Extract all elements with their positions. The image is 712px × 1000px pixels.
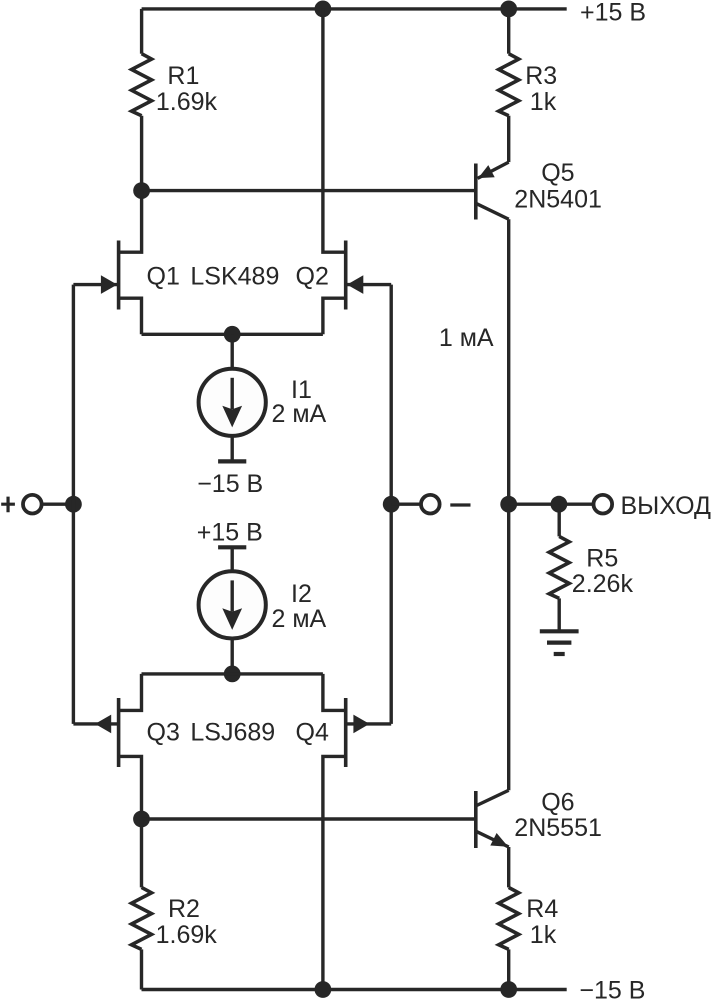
wire top +15V rail [142,7,567,10]
junction R1 / Q5 base [133,182,150,199]
wire R2 top lead [140,819,143,887]
power +15V stub (I2) [218,545,246,549]
svg-text:−15 В: −15 В [579,977,645,1000]
junction bottom rail / R4 [500,981,517,998]
wire R1 bottom lead [140,116,143,191]
wire R5 bottom lead [558,598,561,631]
svg-text:Q1: Q1 [147,263,180,291]
wire R2 bottom lead [140,949,143,989]
svg-text:Q2: Q2 [296,263,329,291]
svg-text:+15 В: +15 В [197,518,263,546]
svg-text:Q4: Q4 [296,719,329,747]
svg-text:Q5: Q5 [541,159,574,187]
wire Q3 gate lead [73,722,118,725]
current source I1 circle [199,369,266,436]
svg-text:2N5551: 2N5551 [514,814,602,842]
wire left gate (Q1/Q3) [72,285,75,724]
resistor R3 [499,54,519,116]
transistor Q3 gate arrow [95,715,111,734]
input + terminal circle [23,495,42,514]
svg-text:R1: R1 [167,62,199,90]
transistor Q5 emitter arrow [478,165,495,178]
transistor Q6 collector [476,790,509,806]
wire bottom sources bus [142,672,323,675]
current source I2 circle [199,571,266,638]
wire Q1 source lead [119,298,142,334]
resistor R2 [132,887,152,949]
svg-text:LSJ689: LSJ689 [190,719,275,747]
svg-text:ВЫХОД: ВЫХОД [621,492,712,520]
junction top rail / Q2 drain [315,1,332,18]
wire - input stub [391,503,421,506]
wire I1 bottom lead [230,436,233,461]
resistor R5 [549,536,569,598]
power -15V stub (I1) [218,459,246,463]
wire Q1 drain lead [119,191,142,253]
svg-text:+15 В: +15 В [580,0,646,27]
wire R4 bottom lead [507,949,510,989]
wire R3 top lead [507,9,510,54]
svg-text:1k: 1k [530,88,557,116]
junction tail / I1 [224,326,241,343]
wire I1 top lead [230,334,233,368]
input + plus sign [1,497,15,513]
current source I1 arrow [230,378,233,409]
junction bottom rail / Q4 drain [315,981,332,998]
ground symbol [540,629,579,633]
transistor Q2 gate arrow [347,275,363,294]
svg-text:Q6: Q6 [541,788,574,816]
resistor R1 [132,54,152,116]
wire Q4 gate lead [346,722,392,725]
svg-text:R4: R4 [526,895,558,923]
transistor Q5 collector [476,203,509,219]
svg-text:2.26k: 2.26k [572,570,634,598]
transistor Q6 emitter [476,831,509,847]
transistor Q6 base bar [474,791,478,848]
svg-text:−15 В: −15 В [197,470,263,498]
svg-text:R2: R2 [168,895,200,923]
svg-text:R5: R5 [586,544,618,572]
transistor Q4 channel bar [344,698,348,767]
junction output / R5 [551,496,568,513]
current source I2 arrow [230,580,233,611]
svg-text:2N5401: 2N5401 [514,185,602,213]
transistor Q4 gate arrow [353,715,369,734]
transistor Q1 gate arrow [101,275,117,294]
wire sources tail bus [142,333,323,336]
svg-text:R3: R3 [525,62,557,90]
wire Q6 emitter to R4 [507,847,510,887]
wire Q5-Q6 collector column [507,219,510,790]
transistor Q3 channel bar [117,698,121,767]
wire R3 to Q5 emitter [507,116,510,162]
output terminal circle [594,495,613,514]
junction I2 / sources bus [224,666,241,683]
svg-text:1 мА: 1 мА [439,324,494,352]
wire Q2 drain lead [323,9,346,252]
wire Q5 base line [142,189,476,192]
wire R5 top lead [558,504,561,536]
input - terminal circle [421,495,440,514]
junction R2 / Q6 base [133,811,150,828]
transistor Q6 emitter arrow [490,833,508,847]
svg-text:1.69k: 1.69k [156,88,218,116]
wire Q3 drain lead [119,756,142,819]
svg-text:2 мА: 2 мА [272,605,327,633]
transistor Q5 base bar [474,164,478,220]
input - minus sign [450,503,470,506]
wire right gate (Q2/Q4) [390,285,393,724]
wire Q6 base line [142,817,476,820]
wire I2 top lead [230,547,233,571]
junction collector column / output [500,496,517,513]
transistor Q1 channel bar [117,241,121,310]
transistor Q5 emitter [478,162,509,178]
wire Q2 source lead [323,298,346,334]
wire + input to gate wire [42,503,74,506]
wire output [509,503,594,506]
svg-text:LSK489: LSK489 [190,263,279,291]
transistor Q2 channel bar [344,241,348,310]
wire Q1 gate lead [73,283,118,286]
svg-text:Q3: Q3 [147,719,180,747]
resistor R4 [499,887,519,949]
wire bottom -15V rail [142,988,567,991]
wire Q4 drain lead [323,756,346,989]
wire Q4 source lead [323,674,346,711]
junction + input / left gate wire [65,496,82,513]
wire Q3 source lead [119,674,142,711]
wire I2 bottom lead [230,639,233,674]
junction top rail / R3 [500,1,517,18]
junction - input / right gate wire [383,496,400,513]
svg-text:2 мА: 2 мА [272,400,327,428]
wire R1 top lead [140,9,143,54]
svg-text:1.69k: 1.69k [156,921,218,949]
svg-text:1k: 1k [530,921,557,949]
wire Q2 gate lead [346,283,392,286]
